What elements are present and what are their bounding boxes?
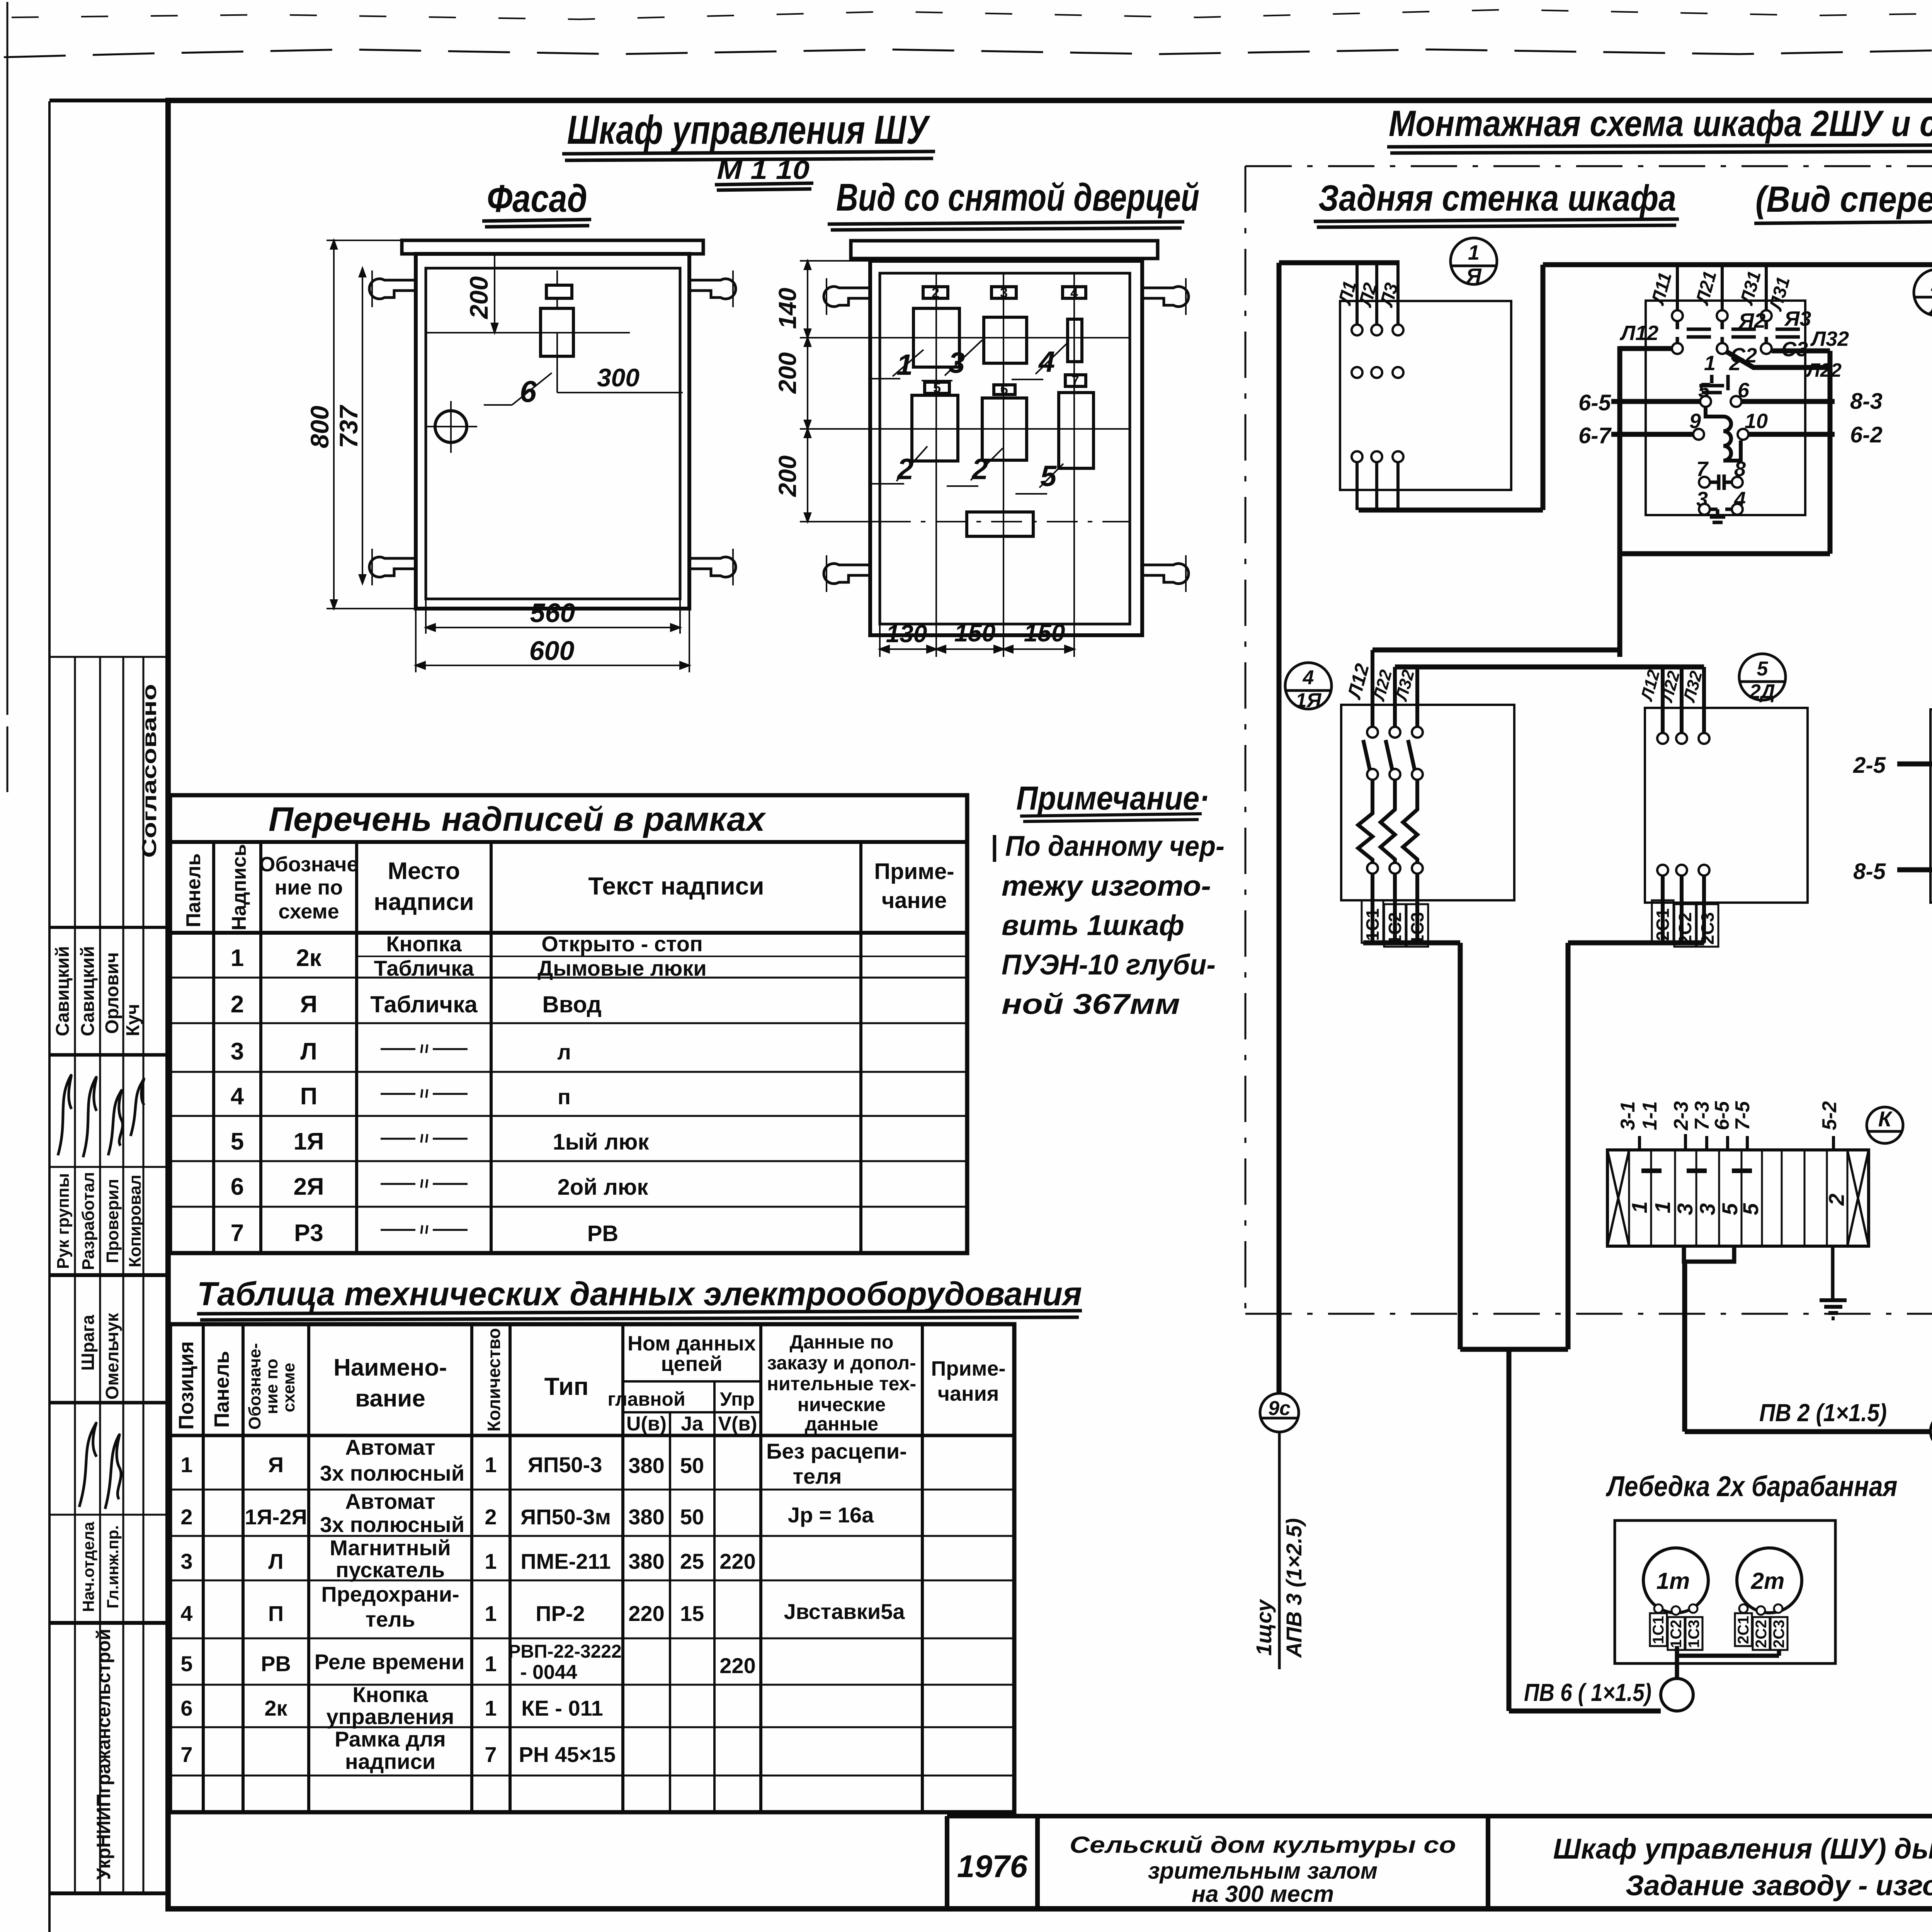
svg-text:8-3: 8-3 [1850,389,1883,414]
svg-text:Копировал: Копировал [126,1175,145,1267]
wire: left feeder bus [1277,263,1282,1393]
svg-text:Орлович: Орлович [102,952,122,1034]
svg-text:1Я: 1Я [1296,689,1322,712]
inscriptions table [170,795,967,1253]
svg-text:3: 3 [231,1038,244,1065]
svg-text:1Я-2Я: 1Я-2Я [245,1505,307,1529]
node 5/2Д [1739,654,1786,703]
svg-text:Лебедка 2х барабанная: Лебедка 2х барабанная [1605,1470,1897,1502]
svg-text:1С2: 1С2 [1385,912,1405,945]
svg-text:ПУЭН-10 глуби-: ПУЭН-10 глуби- [1002,949,1216,981]
svg-text:130: 130 [886,620,927,648]
svg-text:4: 4 [1070,285,1078,301]
svg-text:п: п [558,1085,571,1109]
svg-text:8-5: 8-5 [1853,859,1886,884]
svg-text:1С3: 1С3 [1685,1620,1702,1648]
svg-text:Я: Я [300,991,318,1018]
svg-text:5: 5 [933,380,941,396]
svg-text:Проверил: Проверил [103,1179,122,1263]
left signature strip [49,657,168,1893]
svg-text:чание: чание [882,888,947,913]
wire ПВ2 horizontal [1685,1429,1931,1434]
svg-text:2Д: 2Д [1749,680,1775,703]
wire right riser [1828,351,1833,554]
svg-text:1С3: 1С3 [1407,912,1427,945]
svg-text:5: 5 [1738,1203,1763,1215]
svg-text:1т: 1т [1656,1568,1690,1594]
svg-text:6-5: 6-5 [1711,1101,1733,1130]
svg-text:Место: Место [388,858,460,884]
wires Л1 Л2 Л3 [1357,263,1398,325]
box 2Д автомат [1645,708,1808,903]
svg-text:заказу и допол-: заказу и допол- [767,1352,916,1374]
svg-text:Рук группы: Рук группы [54,1173,73,1269]
svg-text:6: 6 [180,1696,192,1720]
terminal labels 1С1 1С2 1С3 [1372,874,1417,943]
svg-text:схеме: схеме [278,900,339,923]
svg-text:1: 1 [485,1696,497,1720]
svg-text:2С2: 2С2 [1675,912,1695,945]
svg-text:2: 2 [1824,1194,1849,1206]
svg-text:7: 7 [485,1742,497,1767]
svg-text:7: 7 [1071,372,1079,388]
svg-text:Приме-: Приме- [931,1357,1006,1380]
terminal strip К [1607,1150,1869,1246]
ground under strip [1831,1246,1835,1299]
svg-text:данные: данные [805,1413,878,1435]
svg-text:Автомат: Автомат [345,1489,435,1514]
svg-text:АПВ 3 (1×2.5): АПВ 3 (1×2.5) [1282,1518,1306,1658]
svg-text:Согласовано: Согласовано [138,684,161,858]
svg-text:Тип: Тип [544,1372,589,1400]
svg-text:Упр: Упр [720,1388,755,1410]
svg-text:Л: Л [268,1549,283,1573]
section border dash-dot [1245,166,1932,1314]
svg-text:1: 1 [231,945,244,971]
svg-text:- 0044: - 0044 [520,1661,577,1684]
svg-text:1: 1 [485,1601,497,1626]
svg-text:6-2: 6-2 [1850,422,1883,447]
svg-text:4: 4 [1303,667,1314,689]
svg-text:Шкаф управления (ШУ) дымовы: Шкаф управления (ШУ) дымовыми люками [1553,1833,1932,1865]
svg-text:ние по: ние по [275,876,343,899]
svg-text:Я2: Я2 [1738,309,1765,332]
svg-text:5: 5 [1040,460,1057,493]
svg-text:Задание заводу - изготовител: Задание заводу - изготовителю [1626,1869,1932,1901]
svg-text:5: 5 [231,1128,244,1155]
svg-text:П: П [268,1601,284,1626]
svg-text:тежу изгото-: тежу изгото- [1002,870,1211,902]
motor 1т [1643,1548,1708,1613]
svg-text:3: 3 [180,1549,192,1573]
svg-text:U(в): U(в) [626,1413,667,1435]
svg-text:5: 5 [180,1651,192,1676]
svg-text:Обозначе-: Обозначе- [245,1343,264,1430]
svg-text:Обозначе: Обозначе [259,853,358,876]
svg-text:3: 3 [1695,1203,1719,1215]
svg-text:2: 2 [932,285,939,301]
svg-text:1: 1 [1704,352,1716,375]
strip jumper marks [1641,1168,1752,1173]
svg-text:(Вид спереди): (Вид спереди) [1755,179,1932,220]
svg-text:Предохрани-: Предохрани- [321,1582,459,1606]
svg-text:1: 1 [1627,1201,1651,1213]
svg-text:9с: 9с [1268,1397,1291,1420]
svg-text:Л32: Л32 [1810,327,1849,350]
svg-text:Магнитный: Магнитный [330,1536,451,1560]
svg-text:3х полюсный: 3х полюсный [320,1512,464,1537]
svg-text:10: 10 [1745,410,1768,433]
wire 6-5 / 8-3 [1611,399,1835,404]
node 4/1Я [1285,663,1332,712]
svg-text:л: л [557,1040,571,1064]
wire 6-7 / 6-2 [1611,432,1835,437]
svg-text:Рамка для: Рамка для [335,1727,446,1751]
top bus to Л section [1543,262,1932,267]
svg-text:главной: главной [607,1388,685,1410]
motor terminals 2С [1735,1604,1787,1650]
svg-text:25: 25 [680,1549,704,1573]
svg-text:2Я: 2Я [293,1173,324,1200]
svg-text:600: 600 [529,636,575,666]
svg-text:Jр = 16а: Jр = 16а [788,1503,874,1527]
svg-text:1-1: 1-1 [1639,1101,1661,1130]
svg-text:1С1: 1С1 [1650,1616,1667,1644]
svg-text:Позиция: Позиция [175,1341,198,1430]
interior view drawing [774,241,1189,657]
svg-text:1С1: 1С1 [1362,908,1383,941]
svg-text:цепей: цепей [661,1352,722,1376]
РВ contact row 2 (2-5 / 2-7) [1897,762,1932,767]
svg-text:Разработал: Разработал [79,1172,98,1270]
svg-text:6: 6 [1000,381,1008,397]
svg-text:Панель: Панель [182,853,205,927]
svg-text:3: 3 [949,347,965,379]
Y junction to winch [1460,1347,1568,1352]
riser to top bus [1541,265,1546,510]
svg-text:737: 737 [334,405,363,448]
svg-text:300: 300 [597,363,639,392]
box 1Я автомат [1341,705,1514,900]
svg-text:Куч: Куч [123,1004,143,1036]
svg-text:Савицкий: Савицкий [53,946,73,1036]
svg-text:6-7: 6-7 [1578,423,1612,448]
svg-text:на 300 мест: на 300 мест [1192,1881,1334,1907]
bottom bus [1359,508,1543,513]
node 2/Л [1914,269,1932,319]
svg-text:ПВ 6 ( 1×1.5): ПВ 6 ( 1×1.5) [1524,1679,1651,1706]
svg-text:нические: нические [798,1394,886,1415]
svg-text:2к: 2к [296,945,321,971]
cable down from 2Д [1568,940,1704,946]
svg-text:6: 6 [231,1173,244,1200]
svg-text:Панель: Панель [210,1351,233,1428]
svg-text:РВП-22-3222: РВП-22-3222 [508,1641,621,1662]
svg-text:Автомат: Автомат [345,1435,435,1459]
svg-text:надписи: надписи [345,1749,435,1774]
svg-text:Количество: Количество [484,1328,504,1432]
svg-text:2-5: 2-5 [1853,753,1886,778]
box 2Л (магнитный пускатель) [1646,301,1805,515]
svg-text:Примечание·: Примечание· [1016,780,1209,817]
svg-text:1: 1 [896,349,913,381]
svg-text:Табличка: Табличка [374,956,474,980]
svg-text:Р3: Р3 [294,1220,323,1247]
svg-text:1: 1 [485,1651,497,1676]
svg-text:Савицкий: Савицкий [78,946,98,1036]
pin labels [1617,1101,1841,1131]
svg-text:чания: чания [938,1382,999,1405]
svg-text:150: 150 [1024,619,1065,647]
svg-text:Без расцепи-: Без расцепи- [766,1439,907,1463]
svg-text:теля: теля [793,1464,842,1488]
feeder cable 1щсу [1278,1432,1281,1669]
svg-text:управления: управления [327,1704,454,1729]
svg-text:1: 1 [485,1452,497,1477]
svg-text:2: 2 [1729,352,1741,375]
svg-text:Приме-: Приме- [874,859,954,884]
terminal labels 2С1 2С2 2С3 [1663,876,1704,943]
svg-text:Вид со снятой дверцей: Вид со снятой дверцей [836,176,1199,219]
svg-text:200: 200 [774,456,801,497]
svg-text:4: 4 [231,1083,244,1110]
svg-text:Данные по: Данные по [790,1331,894,1353]
wire ПВ2 drop [1682,1262,1687,1432]
svg-text:1ый люк: 1ый люк [553,1129,650,1155]
svg-text:2С1: 2С1 [1735,1616,1752,1644]
svg-text:4: 4 [1038,345,1055,378]
svg-text:1щсу: 1щсу [1252,1599,1276,1656]
svg-text:4: 4 [180,1601,192,1626]
svg-text:ПМЕ-211: ПМЕ-211 [520,1549,611,1573]
svg-text:Нач.отдела: Нач.отдела [79,1522,97,1612]
svg-text:2С3: 2С3 [1770,1620,1787,1648]
stubs into 1Я [1372,650,1417,727]
svg-text:150: 150 [954,619,996,647]
sheet titles [482,103,1932,1814]
svg-text:Реле времени: Реле времени [315,1650,465,1674]
svg-text:П: П [300,1083,318,1110]
svg-text:560: 560 [530,598,575,628]
svg-text:2: 2 [231,991,244,1018]
svg-text:РВ: РВ [587,1221,619,1246]
svg-text:2к: 2к [264,1696,287,1720]
svg-text:ПР-2: ПР-2 [536,1601,585,1626]
svg-text:Текст надписи: Текст надписи [588,872,764,900]
svg-text:1: 1 [485,1549,497,1573]
svg-text:1: 1 [1468,241,1480,264]
svg-text:Перечень надписей в рамк: Перечень надписей в рамках [269,800,766,838]
wire Л12 riser down [1617,346,1622,657]
motor terminals 1С [1650,1604,1702,1650]
svg-text:15: 15 [680,1601,704,1626]
РВ resistor row (8-5 / 2-2 8-2) [1897,867,1932,872]
wire feed bus A [1372,648,1620,653]
svg-text:пускатель: пускатель [336,1558,445,1582]
svg-text:3: 3 [1000,285,1008,301]
svg-text:| По данному чер-: | По данному чер- [990,830,1225,862]
motor 2т [1737,1548,1802,1613]
svg-text:Л12: Л12 [1619,321,1658,345]
title block [947,1816,1932,1909]
svg-text:2: 2 [971,453,988,486]
svg-text:1С2: 1С2 [1668,1620,1685,1648]
node ПВ6 junction [1661,1679,1693,1711]
svg-text:Ввод: Ввод [542,992,601,1017]
wire Л12 [1619,346,1672,351]
wire: input bus Л1-Л3 [1279,260,1400,265]
svg-text:нительные тех-: нительные тех- [767,1373,916,1395]
svg-text:Л22: Л22 [1806,359,1842,381]
svg-text:2: 2 [180,1505,192,1529]
svg-text:Омельчук: Омельчук [102,1313,122,1400]
svg-text:Ja: Ja [681,1413,704,1435]
svg-text:1: 1 [180,1452,192,1477]
svg-text:Надпись: Надпись [228,844,250,930]
svg-text:2т: 2т [1751,1568,1785,1594]
strip pin stubs [1639,1134,1833,1150]
svg-text:ПВ 2 (1×1.5): ПВ 2 (1×1.5) [1759,1399,1887,1427]
box 1Я (ввод) [1340,301,1511,490]
svg-text:7: 7 [231,1220,244,1247]
svg-text:Таблица технических данных: Таблица технических данных электрооборуд… [197,1276,1082,1313]
svg-text:1: 1 [1650,1201,1675,1213]
svg-text:Кнопка: Кнопка [352,1682,428,1707]
svg-text:2: 2 [896,453,913,486]
svg-text:Л: Л [300,1038,317,1065]
node 9с [1260,1393,1299,1432]
svg-text:надписи: надписи [374,889,474,915]
stubs Л11 Л21 Л31 [1677,265,1766,310]
svg-text:220: 220 [628,1601,664,1626]
svg-text:380: 380 [628,1505,664,1529]
svg-text:7: 7 [180,1742,192,1767]
svg-text:2-3: 2-3 [1670,1101,1692,1131]
svg-text:Я: Я [268,1452,284,1477]
svg-text:220: 220 [719,1653,755,1678]
svg-text:800: 800 [305,406,334,448]
svg-text:220: 220 [719,1549,755,1573]
svg-text:1Я: 1Я [293,1128,324,1155]
svg-text:РВ: РВ [261,1651,291,1676]
svg-text:3-1: 3-1 [1617,1101,1639,1130]
cable down from 1Я [1363,940,1460,946]
node 1/Я [1451,238,1497,287]
wire Л22 diagonal [1726,352,1830,367]
svg-text:Я: Я [1465,264,1482,287]
switch-fuse columns [1367,727,1423,874]
svg-text:Наимено-: Наимено- [333,1354,447,1381]
svg-text:Ном данных: Ном данных [628,1332,756,1355]
terminals row1 [1352,325,1403,462]
svg-text:140: 140 [774,288,801,329]
svg-text:Фасад: Фасад [487,177,587,220]
svg-text:вить 1шкаф: вить 1шкаф [1002,909,1184,941]
wire bottom link [1620,551,1830,556]
svg-text:7-3: 7-3 [1691,1101,1713,1130]
svg-text:Монтажная схема шкафа 2Ш: Монтажная схема шкафа 2ШУ и схема внешни… [1389,103,1932,144]
wire linking motor cables [1677,1646,1779,1656]
svg-text:2С2: 2С2 [1753,1620,1770,1648]
svg-text:1976: 1976 [957,1849,1028,1884]
svg-text:Гл.инж.пр.: Гл.инж.пр. [104,1525,122,1608]
svg-text:УкрНИИПгражансельстрой: УкрНИИПгражансельстрой [93,1629,114,1880]
svg-text:Открыто - стоп: Открыто - стоп [541,932,703,956]
svg-text:Jвставки5а: Jвставки5а [784,1599,905,1624]
svg-text:вание: вание [355,1385,425,1412]
contact Я2 С2 etc [1672,310,1772,354]
svg-text:50: 50 [680,1453,704,1478]
node К [1867,1107,1903,1143]
svg-text:РН 45×15: РН 45×15 [519,1742,616,1767]
svg-text:ЯП50-3м: ЯП50-3м [520,1505,611,1529]
svg-text:3: 3 [1673,1203,1697,1215]
svg-text:Задняя стенка шкафа: Задняя стенка шкафа [1318,178,1676,219]
svg-text:Шрага: Шрага [78,1315,98,1371]
svg-text:Табличка: Табличка [370,992,478,1017]
node 34у [1930,1413,1932,1449]
svg-text:зрительным залом: зрительным залом [1148,1858,1378,1884]
svg-text:V(в): V(в) [718,1413,757,1435]
stubs into 2Д [1663,667,1704,733]
svg-text:Дымовые люки: Дымовые люки [537,956,706,980]
svg-text:К: К [1878,1107,1893,1131]
svg-text:380: 380 [628,1453,664,1478]
svg-text:6-5: 6-5 [1578,390,1611,415]
svg-text:6: 6 [520,374,537,408]
box РВ реле времени [1930,709,1932,903]
svg-text:Кнопка: Кнопка [386,932,462,956]
wire cup under strip [1684,1246,1734,1262]
winch box [1615,1520,1835,1663]
wires to bottom bus [1357,462,1398,510]
svg-text:3х полюсный: 3х полюсный [320,1461,464,1485]
svg-text:ЯП50-3: ЯП50-3 [528,1452,602,1477]
svg-text:ние по: ние по [262,1359,281,1414]
tech data table [170,1276,1082,1812]
svg-text:Сельский дом культуры со: Сельский дом культуры со [1070,1832,1456,1858]
svg-text:схеме: схеме [279,1363,298,1412]
svg-text:Я3: Я3 [1784,307,1811,330]
svg-text:5: 5 [1757,658,1769,680]
svg-text:200: 200 [774,352,801,394]
svg-text:200: 200 [464,276,493,320]
svg-text:7-5: 7-5 [1731,1101,1754,1130]
wire Л32 [1772,349,1830,354]
svg-text:5-2: 5-2 [1818,1101,1841,1130]
svg-text:2С1: 2С1 [1653,908,1673,941]
svg-text:2С3: 2С3 [1697,912,1718,945]
svg-text:2ой люк: 2ой люк [558,1175,649,1200]
facade drawing [305,240,736,672]
svg-text:ной 367мм: ной 367мм [1002,988,1180,1020]
svg-text:тель: тель [366,1607,415,1631]
svg-text:2: 2 [485,1505,497,1529]
wire feed bus B [1395,665,1704,670]
wire ПВ6 [1509,1709,1661,1714]
svg-text:380: 380 [628,1549,664,1573]
svg-text:50: 50 [680,1505,704,1529]
svg-text:Шкаф управления ШУ: Шкаф управления ШУ [567,107,931,153]
svg-text:КЕ - 011: КЕ - 011 [521,1696,603,1720]
